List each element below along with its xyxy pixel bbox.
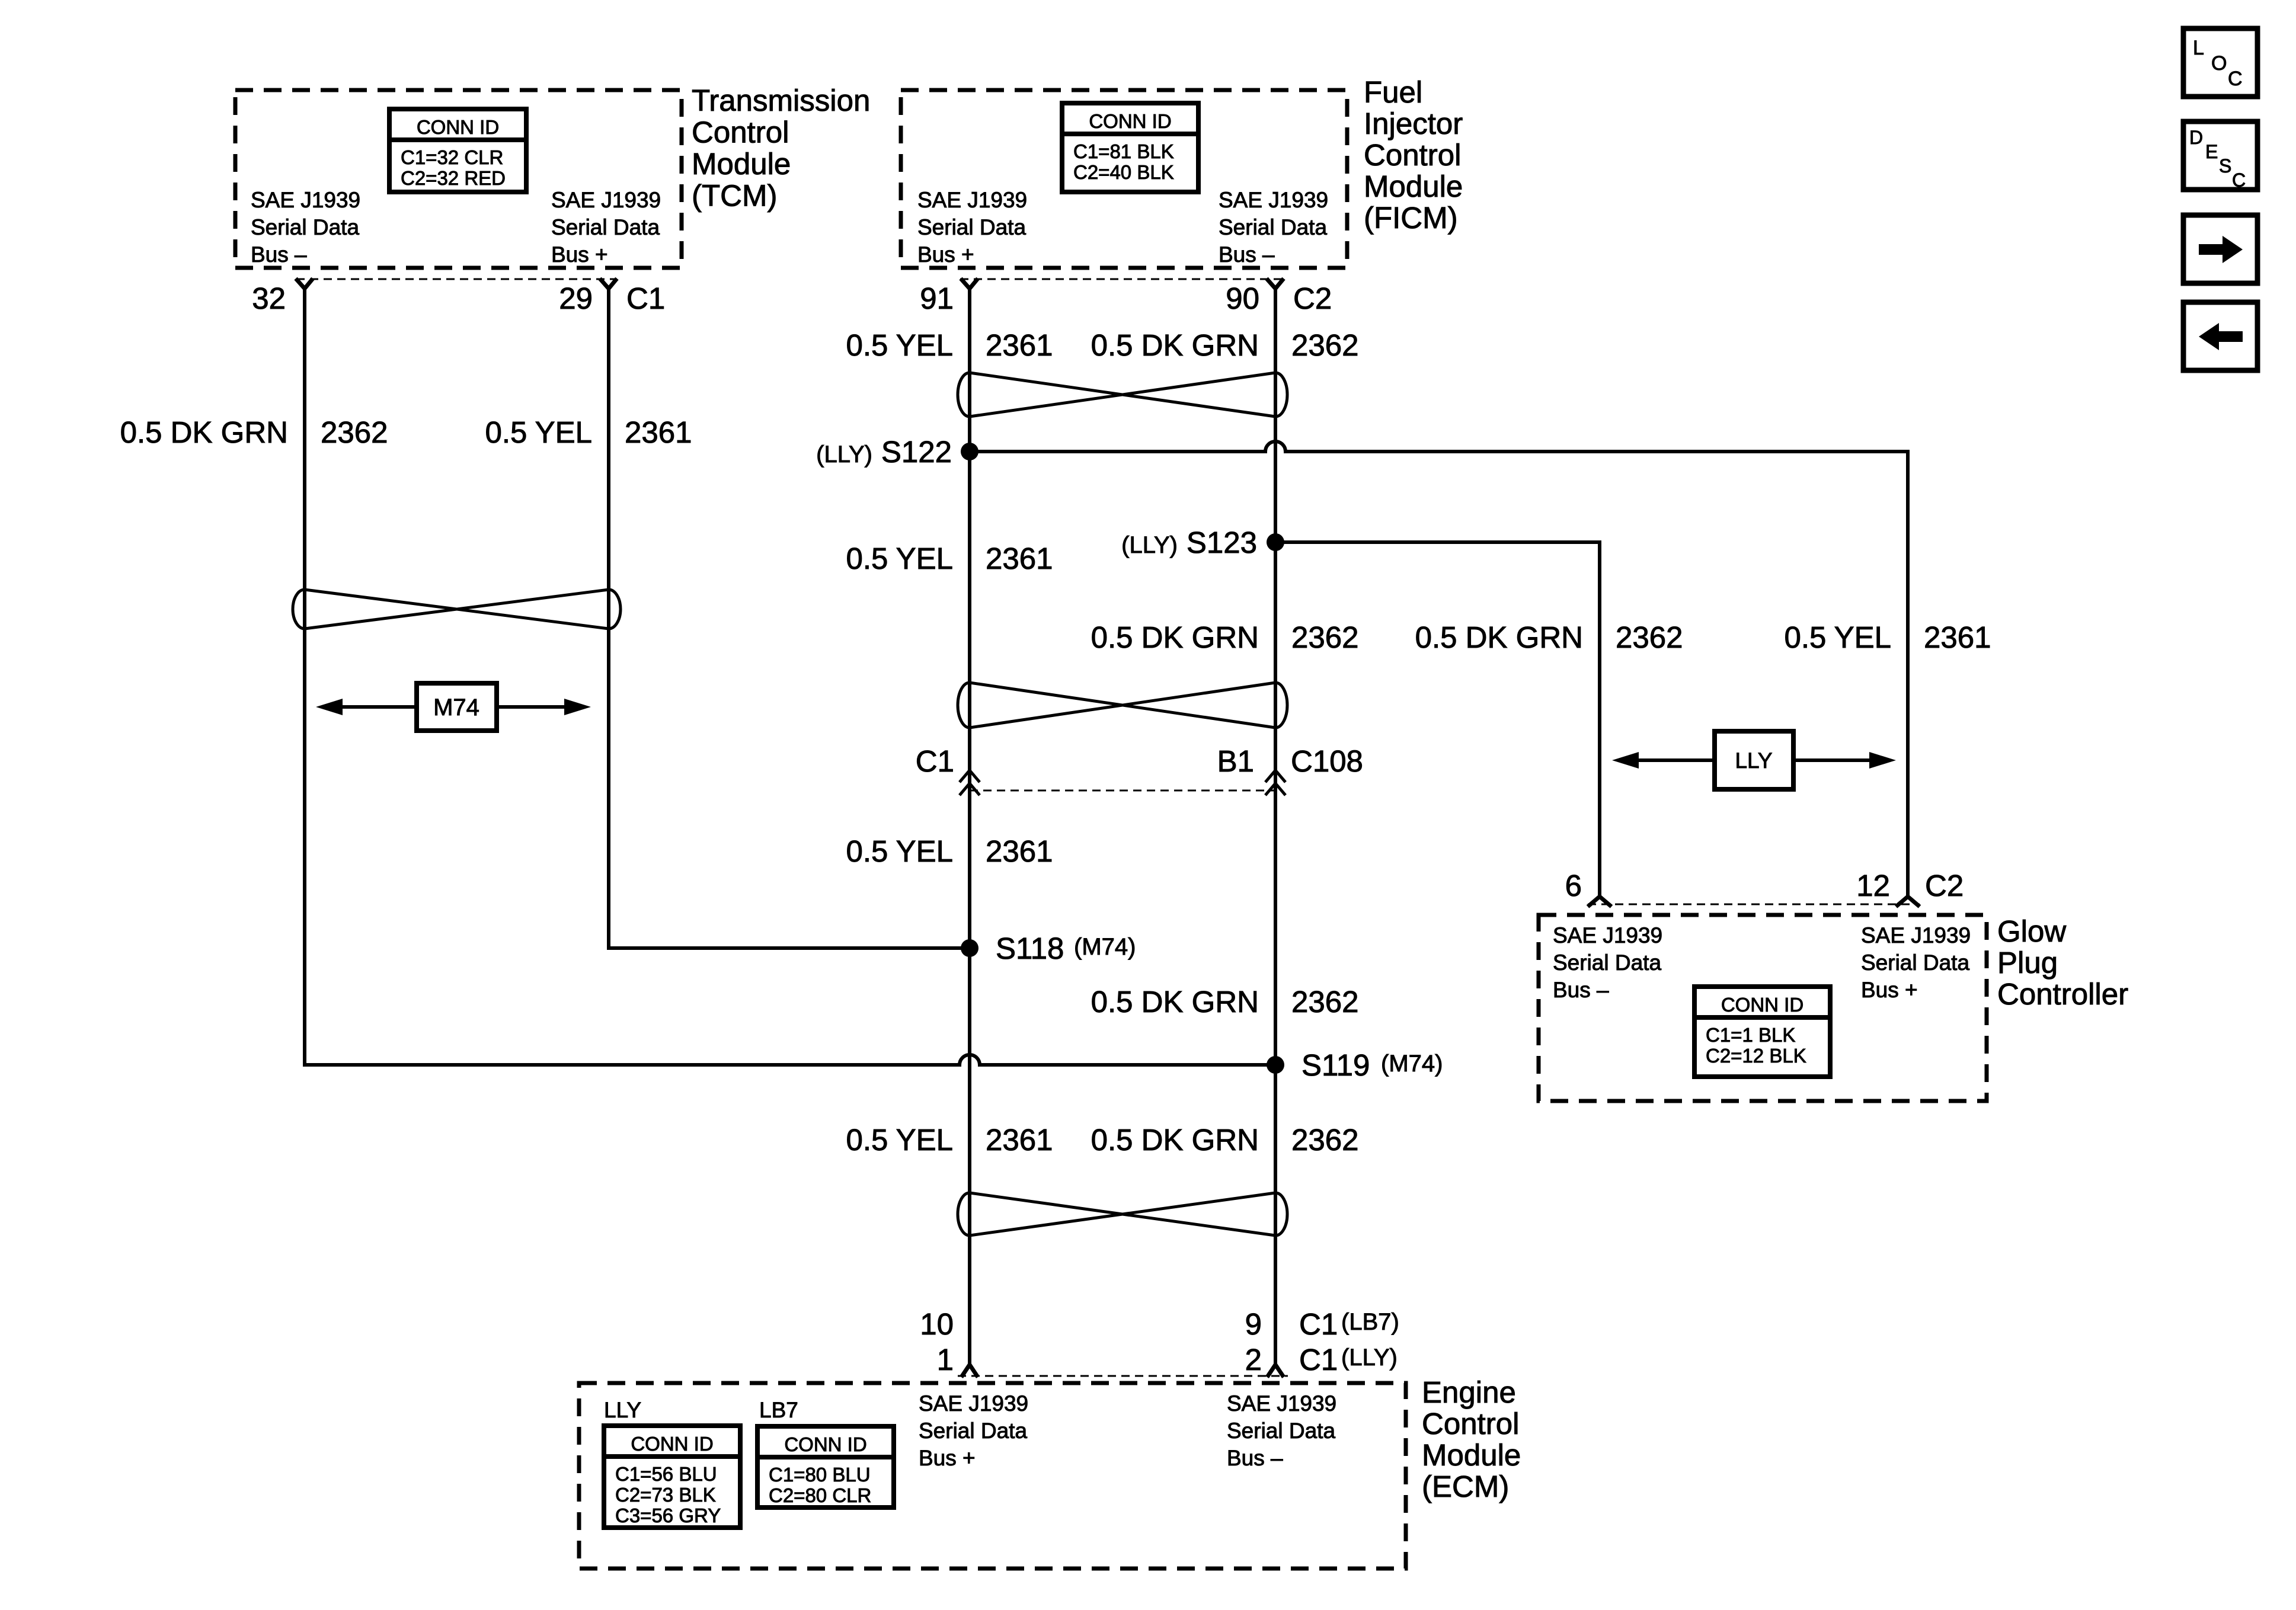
svg-text:2362: 2362 (1616, 620, 1683, 654)
svg-text:(M74): (M74) (1074, 934, 1136, 960)
svg-text:0.5 YEL: 0.5 YEL (846, 1123, 953, 1157)
svg-text:S119: S119 (1302, 1048, 1370, 1082)
svg-text:Bus +: Bus + (917, 242, 974, 267)
svg-text:Serial Data: Serial Data (1219, 215, 1327, 239)
svg-text:C1=81 BLK: C1=81 BLK (1073, 140, 1174, 162)
svg-text:Bus –: Bus – (1553, 978, 1609, 1002)
svg-text:(LLY): (LLY) (1341, 1345, 1398, 1371)
svg-text:C1=80 BLU: C1=80 BLU (769, 1464, 871, 1486)
svg-text:C1: C1 (626, 281, 665, 315)
svg-text:2362: 2362 (1291, 985, 1358, 1019)
svg-text:Injector: Injector (1364, 107, 1463, 140)
svg-text:Serial Data: Serial Data (551, 215, 660, 239)
svg-text:SAE J1939: SAE J1939 (1861, 923, 1971, 948)
svg-text:(LB7): (LB7) (1341, 1309, 1399, 1335)
svg-text:C2=12 BLK: C2=12 BLK (1706, 1045, 1806, 1067)
svg-text:Bus –: Bus – (1227, 1446, 1283, 1470)
svg-text:Fuel: Fuel (1364, 75, 1422, 109)
svg-text:C2=32 RED: C2=32 RED (401, 167, 506, 189)
svg-text:C108: C108 (1291, 744, 1363, 778)
svg-text:SAE J1939: SAE J1939 (1227, 1391, 1336, 1416)
svg-text:Bus +: Bus + (551, 242, 608, 267)
svg-text:2361: 2361 (986, 542, 1053, 575)
svg-text:L: L (2193, 37, 2204, 59)
svg-text:Bus +: Bus + (1861, 978, 1918, 1002)
svg-text:Bus –: Bus – (251, 242, 307, 267)
svg-text:SAE J1939: SAE J1939 (917, 188, 1027, 212)
svg-text:C: C (2228, 68, 2243, 90)
svg-text:Controller: Controller (1997, 977, 2128, 1011)
svg-text:C2: C2 (1293, 281, 1332, 315)
svg-text:C1: C1 (1299, 1307, 1338, 1341)
svg-text:S122: S122 (881, 435, 952, 469)
svg-text:Serial Data: Serial Data (919, 1419, 1027, 1443)
svg-text:LLY: LLY (604, 1398, 641, 1422)
svg-text:(FICM): (FICM) (1364, 201, 1458, 235)
svg-text:C1=32 CLR: C1=32 CLR (401, 146, 503, 168)
svg-text:2361: 2361 (986, 1123, 1053, 1157)
svg-text:Serial Data: Serial Data (1861, 950, 1969, 975)
svg-text:S123: S123 (1187, 526, 1257, 559)
svg-text:2361: 2361 (1924, 620, 1991, 654)
svg-text:9: 9 (1245, 1307, 1262, 1341)
svg-text:0.5 YEL: 0.5 YEL (846, 328, 953, 362)
svg-text:E: E (2205, 141, 2218, 162)
svg-text:2362: 2362 (1291, 620, 1358, 654)
svg-text:29: 29 (559, 281, 593, 315)
svg-text:0.5 YEL: 0.5 YEL (846, 834, 953, 868)
svg-text:Serial Data: Serial Data (1227, 1419, 1335, 1443)
svg-text:0.5 DK GRN: 0.5 DK GRN (1091, 328, 1259, 362)
svg-text:SAE J1939: SAE J1939 (919, 1391, 1028, 1416)
svg-text:Transmission: Transmission (692, 84, 870, 117)
svg-text:0.5 DK GRN: 0.5 DK GRN (1091, 620, 1259, 654)
svg-text:CONN ID: CONN ID (1089, 110, 1171, 132)
svg-text:Module: Module (692, 147, 791, 181)
svg-text:Plug: Plug (1997, 946, 2058, 980)
svg-text:C2=73 BLK: C2=73 BLK (615, 1484, 716, 1506)
svg-text:Bus +: Bus + (919, 1446, 976, 1470)
svg-text:O: O (2211, 52, 2227, 75)
svg-text:2361: 2361 (986, 328, 1053, 362)
svg-text:C1=1 BLK: C1=1 BLK (1706, 1024, 1795, 1046)
svg-text:91: 91 (920, 281, 954, 315)
svg-text:Control: Control (1364, 138, 1461, 172)
svg-text:Serial Data: Serial Data (1553, 950, 1661, 975)
svg-text:12: 12 (1856, 869, 1890, 902)
svg-text:2: 2 (1245, 1343, 1262, 1377)
svg-text:Control: Control (692, 116, 789, 149)
svg-text:Glow: Glow (1997, 914, 2066, 948)
svg-text:(TCM): (TCM) (692, 179, 777, 213)
svg-text:2361: 2361 (986, 834, 1053, 868)
svg-text:SAE J1939: SAE J1939 (251, 188, 360, 212)
svg-text:32: 32 (252, 281, 286, 315)
svg-text:6: 6 (1565, 869, 1582, 902)
svg-text:C1=56 BLU: C1=56 BLU (615, 1463, 717, 1485)
svg-text:C3=56 GRY: C3=56 GRY (615, 1505, 721, 1526)
svg-text:SAE J1939: SAE J1939 (1553, 923, 1662, 948)
svg-text:(ECM): (ECM) (1422, 1470, 1509, 1503)
svg-text:Module: Module (1364, 169, 1463, 203)
svg-text:SAE J1939: SAE J1939 (1219, 188, 1328, 212)
svg-text:2362: 2362 (321, 415, 388, 449)
svg-text:Engine: Engine (1422, 1375, 1516, 1409)
svg-text:(LLY): (LLY) (1121, 532, 1178, 558)
svg-text:Module: Module (1422, 1438, 1521, 1472)
svg-text:CONN ID: CONN ID (1721, 994, 1803, 1016)
svg-text:LLY: LLY (1735, 748, 1772, 773)
svg-text:B1: B1 (1217, 744, 1254, 778)
svg-text:0.5 DK GRN: 0.5 DK GRN (1415, 620, 1583, 654)
svg-text:2361: 2361 (625, 415, 692, 449)
svg-text:1: 1 (937, 1343, 954, 1377)
svg-text:Bus –: Bus – (1219, 242, 1275, 267)
svg-text:(LLY): (LLY) (816, 441, 872, 468)
svg-text:C2: C2 (1925, 869, 1964, 902)
svg-text:0.5 YEL: 0.5 YEL (846, 542, 953, 575)
svg-text:LB7: LB7 (759, 1398, 798, 1422)
svg-text:C: C (2232, 169, 2246, 191)
svg-text:0.5 YEL: 0.5 YEL (1784, 620, 1891, 654)
svg-text:CONN ID: CONN ID (784, 1433, 866, 1455)
svg-text:(M74): (M74) (1381, 1051, 1443, 1077)
svg-text:Serial Data: Serial Data (251, 215, 359, 239)
svg-text:0.5 DK GRN: 0.5 DK GRN (120, 415, 288, 449)
svg-text:C2=40 BLK: C2=40 BLK (1073, 161, 1174, 183)
svg-text:S118: S118 (996, 932, 1064, 965)
svg-text:C1: C1 (1299, 1343, 1338, 1377)
svg-text:2362: 2362 (1291, 1123, 1358, 1157)
svg-text:CONN ID: CONN ID (631, 1433, 713, 1455)
svg-text:CONN ID: CONN ID (417, 116, 499, 138)
svg-text:0.5 DK GRN: 0.5 DK GRN (1091, 1123, 1259, 1157)
svg-text:2362: 2362 (1291, 328, 1358, 362)
svg-text:90: 90 (1226, 281, 1259, 315)
svg-text:C2=80 CLR: C2=80 CLR (769, 1484, 871, 1506)
svg-text:Control: Control (1422, 1407, 1519, 1441)
svg-text:S: S (2219, 155, 2231, 177)
svg-text:0.5 YEL: 0.5 YEL (485, 415, 592, 449)
svg-text:Serial Data: Serial Data (917, 215, 1026, 239)
svg-text:0.5 DK GRN: 0.5 DK GRN (1091, 985, 1259, 1019)
svg-text:10: 10 (920, 1307, 954, 1341)
svg-text:SAE J1939: SAE J1939 (551, 188, 661, 212)
svg-text:D: D (2189, 127, 2203, 148)
svg-text:C1: C1 (916, 744, 954, 778)
svg-text:M74: M74 (433, 694, 479, 721)
